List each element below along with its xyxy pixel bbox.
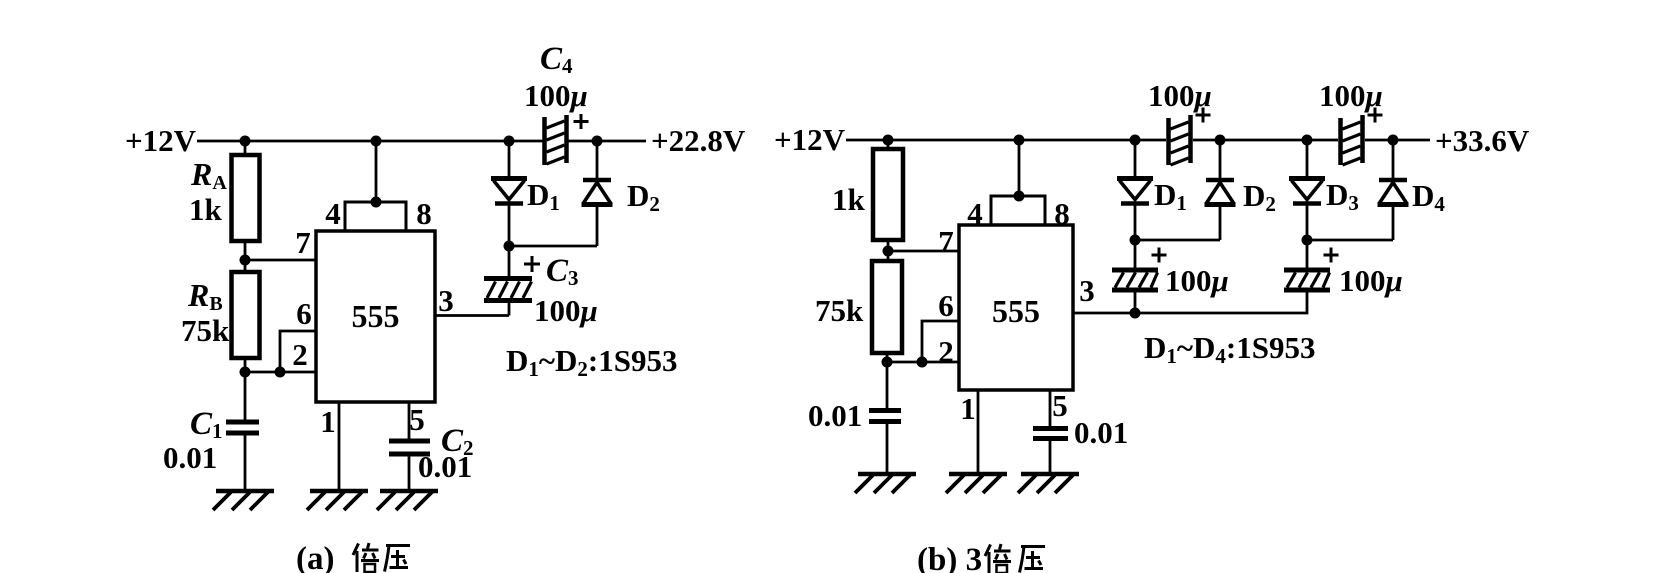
- svg-text:+12V: +12V: [125, 123, 197, 158]
- svg-text:7: 7: [295, 225, 311, 260]
- plus sign upper-left cap (b): [1196, 108, 1211, 123]
- ground pin1 (a): [307, 491, 368, 510]
- svg-text:(a): (a): [296, 541, 334, 573]
- wire D1-D2 bottom (b): [1135, 239, 1220, 242]
- svg-text:RB: RB: [187, 277, 223, 315]
- wire pin 6 (b): [922, 321, 959, 362]
- resistor 1k (b): [873, 149, 903, 240]
- svg-text:3: 3: [438, 283, 454, 318]
- junction RB-C1: [240, 367, 251, 378]
- svg-text:6: 6: [296, 296, 312, 331]
- diode D1 (b): [1117, 140, 1153, 240]
- svg-text:RA: RA: [190, 156, 227, 194]
- junction D3 bottom (b): [1302, 235, 1313, 246]
- wire supply to bracket (b): [1018, 140, 1021, 196]
- junction D1 bottom: [504, 241, 515, 252]
- svg-text:100μ: 100μ: [1319, 78, 1383, 113]
- junction bracket: [371, 197, 382, 208]
- svg-text:100μ: 100μ: [1339, 263, 1403, 298]
- capacitor 100u upper-right (b): [1341, 115, 1363, 165]
- wire top rail seg1 (b): [846, 139, 1166, 142]
- capacitor 0.01 (b right): [1033, 429, 1068, 475]
- wire pin4-pin8 bracket (b): [991, 196, 1045, 225]
- diode D4 (b): [1378, 140, 1409, 240]
- svg-text:6: 6: [938, 288, 954, 323]
- svg-text:100μ: 100μ: [524, 78, 588, 113]
- wire 75k bottom lead: [886, 353, 889, 362]
- capacitor C2: [389, 441, 430, 491]
- junction C4 right: [592, 136, 603, 147]
- svg-text:100μ: 100μ: [1165, 263, 1229, 298]
- svg-text:+22.8V: +22.8V: [651, 123, 746, 158]
- junction 1k top: [883, 135, 894, 146]
- svg-text:7: 7: [938, 224, 954, 259]
- wire D1-D2 bottom (a): [509, 245, 597, 248]
- svg-text:3: 3: [1079, 273, 1095, 308]
- wire pin 5 (a): [408, 402, 411, 439]
- junction D1 top: [504, 136, 515, 147]
- capacitor C3 (electrolytic): [484, 246, 532, 316]
- svg-text:100μ: 100μ: [534, 293, 598, 328]
- wire pin 6 (a): [280, 331, 316, 372]
- svg-text:C3: C3: [546, 253, 579, 290]
- wire pin 5 (b): [1049, 390, 1052, 426]
- wire pin 2 (a): [245, 371, 316, 374]
- svg-text:5: 5: [409, 402, 425, 437]
- wire pin 3 (a): [435, 314, 509, 317]
- svg-text:1k: 1k: [189, 192, 223, 227]
- svg-text:1: 1: [320, 404, 336, 439]
- ground left (b): [855, 474, 916, 493]
- junction 555 supply: [371, 136, 382, 147]
- wire top rail seg2 (b): [1193, 139, 1338, 142]
- capacitor 100u lower-left (b): [1112, 240, 1158, 313]
- svg-text:D4: D4: [1412, 178, 1445, 216]
- svg-text:D1~D4:1S953: D1~D4:1S953: [1144, 330, 1315, 368]
- svg-text:75k: 75k: [181, 313, 230, 348]
- diode D2 (b): [1205, 140, 1236, 240]
- capacitor 100u upper-left (b): [1169, 115, 1191, 165]
- svg-text:2: 2: [292, 337, 308, 372]
- junction 75k-C bottom (b): [882, 357, 893, 368]
- svg-text:100μ: 100μ: [1148, 78, 1212, 113]
- op-amp/timer 555 (a): [316, 231, 435, 402]
- svg-text:(b) 3: (b) 3: [917, 542, 982, 573]
- junction RA top: [240, 136, 251, 147]
- wire 1k-75k: [887, 240, 890, 261]
- junction D1 bottom (b): [1130, 235, 1141, 246]
- svg-text:+33.6V: +33.6V: [1435, 123, 1530, 158]
- wire pin 2 (b): [887, 361, 959, 364]
- junction pin7 node: [240, 255, 251, 266]
- svg-text:2: 2: [938, 334, 954, 369]
- timer 555 (b): [959, 225, 1073, 390]
- wire pin 7 (b): [888, 250, 959, 253]
- svg-text:C1: C1: [190, 406, 223, 443]
- resistor RA: [232, 155, 260, 241]
- diode D3 (b): [1289, 140, 1325, 240]
- wire RB bottom lead: [244, 358, 247, 372]
- svg-text:D1: D1: [1154, 177, 1187, 215]
- svg-text:C4: C4: [540, 41, 573, 78]
- svg-text:5: 5: [1052, 388, 1068, 423]
- svg-text:D1~D2:1S953: D1~D2:1S953: [506, 343, 677, 381]
- wire pin 1 (b): [977, 390, 980, 474]
- wire pin 7 (a): [245, 259, 316, 262]
- svg-text:8: 8: [1054, 196, 1070, 231]
- plus sign C3: [524, 256, 540, 272]
- wire RA top lead: [244, 141, 247, 155]
- svg-text:0.01: 0.01: [1074, 415, 1128, 450]
- wire 1k top lead: [887, 140, 890, 149]
- svg-text:D2: D2: [627, 178, 660, 216]
- svg-text:555: 555: [992, 293, 1040, 329]
- wire supply to bracket: [375, 141, 378, 202]
- svg-text:0.01: 0.01: [418, 449, 472, 484]
- plus sign upper-right cap (b): [1368, 108, 1383, 123]
- wire RA-RB: [244, 241, 247, 272]
- resistor RB: [232, 272, 260, 358]
- junction bracket (b): [1014, 191, 1025, 202]
- plus sign lower-left cap (b): [1152, 248, 1167, 263]
- svg-text:0.01: 0.01: [163, 440, 217, 475]
- svg-text:D1: D1: [527, 177, 560, 215]
- svg-text:75k: 75k: [815, 293, 864, 328]
- svg-text:555: 555: [352, 298, 400, 334]
- wire pin4-pin8 bracket: [345, 202, 406, 231]
- plus sign C4: [574, 114, 589, 129]
- svg-text:0.01: 0.01: [808, 398, 862, 433]
- wire pin 3 (b): [1073, 312, 1135, 315]
- svg-text:D2: D2: [1243, 178, 1276, 216]
- junction 555 supply (b): [1014, 135, 1025, 146]
- capacitor C1: [226, 372, 259, 491]
- diode D2 (a): [582, 141, 613, 246]
- ground pin1 (b): [946, 474, 1007, 493]
- junction D1 top (b): [1130, 135, 1141, 146]
- wire pin3 to cap2 (b): [1135, 292, 1307, 313]
- wire pin 1 (a): [338, 402, 341, 491]
- svg-text:8: 8: [416, 196, 432, 231]
- svg-text:+12V: +12V: [774, 122, 846, 157]
- junction pin2-pin6 (b): [917, 357, 928, 368]
- junction D4 top (b): [1388, 135, 1399, 146]
- junction D2 top (b): [1215, 135, 1226, 146]
- junction pin7 node (b): [883, 246, 894, 257]
- capacitor C4 (electrolytic, in rail): [545, 115, 567, 165]
- wire top rail right (a): [568, 140, 646, 143]
- ground C1: [213, 491, 274, 510]
- svg-text:1k: 1k: [832, 182, 866, 217]
- ground C2 (a): [377, 491, 438, 510]
- svg-text:4: 4: [967, 196, 983, 231]
- wire D3-D4 bottom (b): [1307, 239, 1393, 242]
- resistor 75k (b): [872, 261, 902, 353]
- wire top rail left (a): [197, 140, 543, 143]
- junction pin2-pin6: [275, 367, 286, 378]
- diode D1 (a): [491, 141, 527, 246]
- junction pin3 node (b): [1130, 308, 1141, 319]
- svg-text:4: 4: [325, 196, 341, 231]
- svg-text:1: 1: [960, 391, 976, 426]
- ground pin5 (b): [1018, 474, 1079, 493]
- svg-text:D3: D3: [1326, 177, 1359, 215]
- plus sign lower-right cap (b): [1324, 248, 1339, 263]
- capacitor 100u lower-right (b): [1284, 240, 1330, 290]
- junction D3 top (b): [1302, 135, 1313, 146]
- wire top rail seg3 (b): [1365, 139, 1430, 142]
- capacitor 0.01 (b left): [869, 362, 901, 474]
